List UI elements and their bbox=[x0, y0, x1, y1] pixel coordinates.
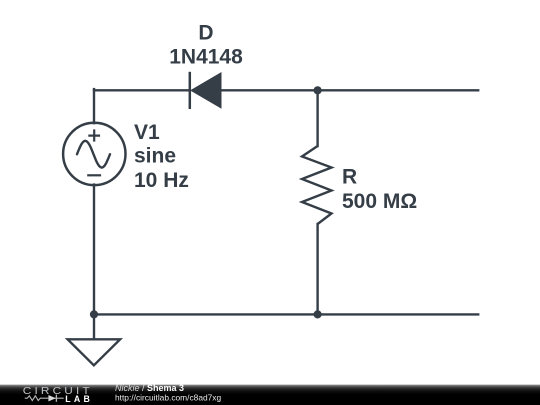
svg-text:sine: sine bbox=[134, 144, 176, 167]
svg-text:LAB: LAB bbox=[65, 394, 93, 404]
wire resistor bottom lead bbox=[316, 224, 318, 314]
svg-text:Nickie / Shema 3: Nickie / Shema 3 bbox=[115, 383, 184, 393]
svg-text:1N4148: 1N4148 bbox=[169, 45, 243, 68]
wire left vertical (corner to V1 top) bbox=[93, 89, 95, 123]
junction dot left (node at V1/ground) bbox=[90, 310, 98, 318]
svg-text:V1: V1 bbox=[134, 121, 160, 144]
label D 1N4148 bbox=[169, 22, 243, 69]
ground symbol bbox=[68, 339, 121, 365]
CircuitLab logo resistor-diode glyph bbox=[25, 395, 64, 402]
wire top-left horizontal segment bbox=[94, 89, 189, 91]
svg-text:D: D bbox=[198, 22, 213, 45]
junction dot right (node at resistor top) bbox=[314, 86, 322, 94]
resistor R zigzag bbox=[302, 146, 332, 224]
wire resistor top lead bbox=[316, 89, 318, 146]
svg-text:R: R bbox=[342, 166, 357, 189]
svg-text:http://circuitlab.com/c8ad7xg: http://circuitlab.com/c8ad7xg bbox=[115, 392, 221, 402]
junction dot resistor bottom bbox=[314, 310, 322, 318]
diode D bbox=[190, 72, 221, 109]
svg-text:10 Hz: 10 Hz bbox=[134, 169, 189, 192]
wire bottom horizontal bbox=[94, 313, 478, 315]
label V1 sine 10 Hz bbox=[134, 121, 189, 192]
label R 500 MΩ bbox=[342, 166, 417, 213]
voltage source V1 bbox=[63, 123, 125, 185]
svg-text:500 MΩ: 500 MΩ bbox=[342, 190, 417, 213]
wire V1 bottom to ground node bbox=[93, 185, 95, 339]
wire top-right horizontal (diode to right edge) bbox=[221, 89, 478, 91]
